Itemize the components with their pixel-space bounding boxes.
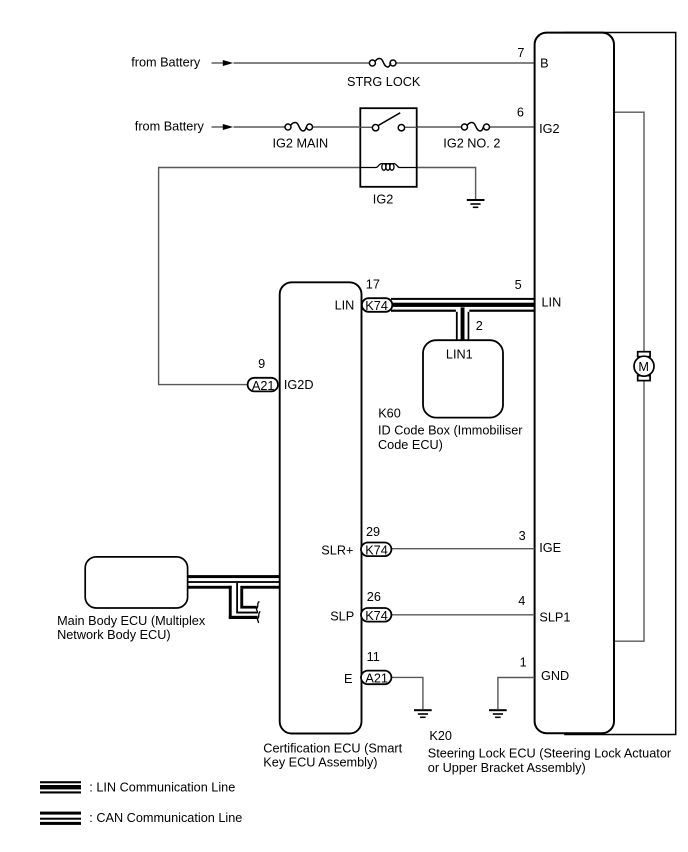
CAN wire D right segment (thick) [240,586,280,589]
CAN stub middle run (thin shield) [236,612,258,614]
wire arrow IG2 feed [212,124,234,130]
relay coil [360,164,416,168]
svg-text:Main Body ECU (Multiplex: Main Body ECU (Multiplex [57,614,206,628]
svg-text:ID Code Box (Immobiliser: ID Code Box (Immobiliser [378,424,523,438]
wire arrow B feed [212,60,234,66]
svg-text:Key ECU Assembly): Key ECU Assembly) [263,756,377,770]
svg-text:: CAN Communication Line: : CAN Communication Line [89,811,242,825]
ground (pin GND) [489,709,507,718]
svg-text:SLR+: SLR+ [321,544,353,558]
svg-text:5: 5 [515,278,522,292]
svg-text:K20: K20 [429,729,452,743]
relay IG2 [360,108,416,187]
svg-text:LIN: LIN [542,296,562,310]
svg-text:29: 29 [366,525,380,539]
svg-text:3: 3 [519,529,526,543]
steering lock actuator housing (outer rect) [565,33,676,735]
svg-text:GND: GND [541,669,569,683]
connector A21 pin 11 [361,671,391,686]
svg-text:26: 26 [367,590,381,604]
svg-text:Code ECU): Code ECU) [378,438,443,452]
CAN trunk bar A (thick) [187,575,280,578]
ground (pin E) [414,709,432,718]
svg-text:IG2 MAIN: IG2 MAIN [273,136,329,150]
svg-text:17: 17 [366,278,380,292]
Main Body ECU box [85,557,187,608]
twisted pair end curl lower [257,612,260,624]
wire coil to ground [417,168,476,200]
wire coil to pin 9 IG2D [159,168,361,385]
CAN stub upper run (thick) [240,606,256,609]
CAN wire D left segment (thick) [187,586,231,589]
svg-text:from Battery: from Battery [131,55,201,69]
twisted pair end curl upper [256,602,259,613]
wire relay to pin 6 [417,126,462,128]
connector A21 pin 9 [248,378,278,393]
svg-text:1: 1 [520,656,527,670]
svg-text:7: 7 [517,46,524,60]
wire SLP to SLP1 [392,614,535,616]
wire from Battery to pin B [234,62,370,64]
svg-text:IG2: IG2 [539,122,559,136]
relay switch blade [379,113,401,126]
svg-text:SLP: SLP [330,610,354,624]
connector K74 pin 29 [361,543,391,558]
svg-text:E: E [344,672,352,686]
CAN drop thin (shield) [236,583,238,612]
connector K74 pin 17 [362,298,392,313]
svg-text:: LIN Communication Line: : LIN Communication Line [89,781,235,795]
fuse IG2 MAIN [285,122,313,131]
CAN drop thick right [240,589,243,607]
wire motor branch top [613,112,644,352]
svg-text:IG2: IG2 [373,193,393,207]
wire pin E to ground [392,677,423,709]
svg-text:Steering Lock ECU (Steering Lo: Steering Lock ECU (Steering Lock Actuato… [428,746,672,760]
svg-text:K74: K74 [365,544,388,558]
connector K74 pin 26 [361,608,391,623]
svg-text:A21: A21 [252,379,275,393]
legend CAN sample bar [40,812,81,825]
svg-text:A21: A21 [365,672,388,686]
legend LIN sample bar [40,781,81,793]
svg-text:SLP1: SLP1 [539,610,570,624]
svg-text:11: 11 [367,650,380,664]
LIN communication line trunk (pin17 to pin5) [391,298,535,312]
svg-text:IG2 NO. 2: IG2 NO. 2 [443,136,500,150]
wire pin GND to ground [498,678,535,710]
ID code box K60 [423,340,503,417]
fuse STRG LOCK [369,58,396,67]
svg-text:Certification ECU (Smart: Certification ECU (Smart [263,741,402,755]
svg-text:LIN1: LIN1 [446,347,473,361]
svg-text:B: B [540,56,548,70]
svg-text:9: 9 [258,357,265,371]
svg-text:2: 2 [476,319,483,333]
Certification ECU box [280,282,362,733]
CAN drop thick left [229,586,232,619]
svg-text:LIN: LIN [335,299,355,313]
svg-text:K74: K74 [365,609,388,623]
svg-text:6: 6 [517,105,524,119]
relay switch contacts [360,126,372,128]
fuse IG2 NO. 2 [462,122,490,131]
CAN stub lower run (thick) [229,616,258,619]
svg-text:IGE: IGE [539,541,561,555]
svg-text:M: M [638,360,649,374]
svg-text:or Upper Bracket Assembly): or Upper Bracket Assembly) [428,761,586,775]
motor M [634,352,654,381]
svg-text:K74: K74 [365,299,388,313]
svg-text:IG2D: IG2D [284,378,314,392]
wire SLR+ to IGE [392,548,535,550]
svg-text:STRG LOCK: STRG LOCK [347,75,421,89]
wire motor branch bottom [613,381,644,642]
svg-text:4: 4 [518,594,525,608]
wire from Battery to relay [234,126,286,128]
Steering Lock ECU box K20 [535,33,614,734]
svg-text:from Battery: from Battery [135,120,205,134]
svg-text:Network Body ECU): Network Body ECU) [57,628,171,642]
svg-text:K60: K60 [378,407,401,421]
ground (relay coil) [467,199,485,208]
LIN branch to ID code box [456,307,469,340]
CAN trunk bar B (thin) [187,581,280,583]
